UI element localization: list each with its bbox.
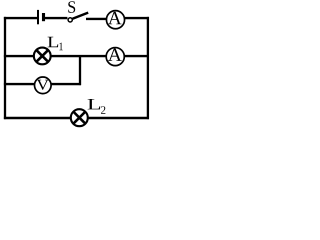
voltmeter V: circle <box>35 77 52 94</box>
lamp L2: circle <box>71 109 88 126</box>
wire: row 3 left segment (left bus to voltmeter) <box>4 83 35 85</box>
wire: top row, A1 to top-right corner <box>125 17 149 19</box>
switch S: label <box>68 1 75 13</box>
wire: right vertical bus <box>147 17 149 119</box>
voltmeter V: letter V <box>37 80 49 90</box>
wire: top row left segment (battery + to left corner) <box>4 17 37 19</box>
lamp L1: cross stroke / <box>36 50 48 62</box>
wire: top row, battery to switch pivot <box>45 17 67 19</box>
lamp L2: cross stroke \ <box>73 112 85 124</box>
wire: row 2 left segment (left bus to lamp L1) <box>4 55 35 57</box>
wire: left vertical bus <box>4 17 6 119</box>
lamp L2: label L <box>88 99 101 109</box>
lamp L1: cross stroke \ <box>36 50 48 62</box>
wire: bottom row, left corner to lamp L2 <box>4 117 72 119</box>
lamp L1: label L <box>48 37 59 47</box>
wire: top row, switch to ammeter A1 <box>86 18 107 20</box>
battery: short thick plate <box>42 13 45 21</box>
wire: row 2, lamp L1 to ammeter A2 <box>50 55 107 57</box>
wire: bottom row, lamp L2 to bottom-right corner <box>88 117 150 119</box>
wire: vertical connector row2 to voltmeter row <box>79 55 81 85</box>
lamp L2: label subscript 2 <box>101 106 105 114</box>
ammeter A2: circle <box>106 48 124 66</box>
switch S: open blade <box>73 13 89 19</box>
lamp L1: label subscript 1 <box>59 43 62 51</box>
wire: row 2, A2 to right bus <box>125 55 149 57</box>
switch S: pivot circle <box>68 18 72 22</box>
battery: long thin plate <box>37 10 39 24</box>
wire: row 3, voltmeter to connector <box>51 83 81 85</box>
ammeter A1: letter A <box>108 12 122 24</box>
ammeter A1: circle <box>106 11 124 29</box>
lamp L2: cross stroke / <box>73 112 85 124</box>
ammeter A2: letter A <box>108 49 122 61</box>
lamp L1: circle <box>34 48 51 65</box>
